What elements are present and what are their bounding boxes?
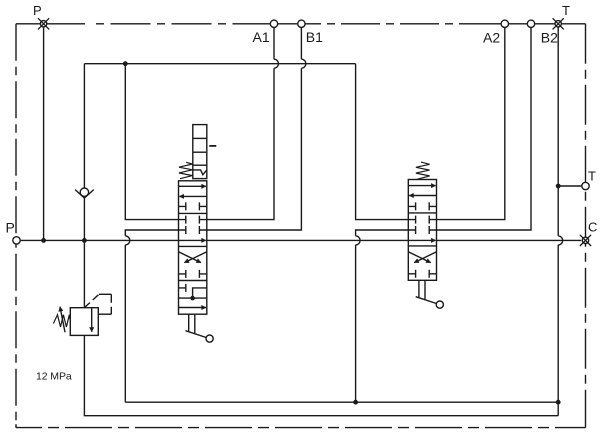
valve V2 neutral open-center arrow (408, 239, 435, 241)
wire tank rail (84, 63, 355, 65)
valve V1 detent dash mark (209, 145, 216, 147)
valve V1 position1 arrow right (179, 185, 206, 187)
wire outer tank return line (84, 335, 558, 415)
valve V1 detent column (193, 125, 207, 179)
junction dot bottom line T (556, 400, 561, 405)
valve V1 position3 crossed arrows (179, 252, 207, 263)
wire valve2 drop to bottom line (355, 245, 357, 402)
valve V1 spring (179, 162, 193, 178)
port T right (582, 182, 589, 189)
svg-text:A1: A1 (253, 29, 270, 45)
wire B1 riser (300, 27, 302, 59)
svg-text:B2: B2 (541, 30, 558, 46)
wire hop over main line (558, 236, 563, 245)
wire P vertical from top port (43, 27, 45, 240)
junction dot P line (41, 238, 46, 243)
svg-text:T: T (588, 169, 596, 184)
port A1 (270, 20, 277, 27)
wire drop to bottom tank line (124, 245, 126, 402)
valve V1 position3 blocked stubs (179, 270, 207, 278)
svg-text:B1: B1 (306, 29, 323, 45)
valve V2 lever shaft (419, 280, 425, 299)
enclosure boundary top (16, 23, 85, 25)
svg-text:P: P (33, 3, 42, 18)
wire A2 riser (437, 27, 505, 220)
wire check/relief vertical upper (83, 64, 85, 189)
svg-text:12 MPa: 12 MPa (36, 371, 72, 383)
valve V1 neutral open-center arrow (179, 239, 206, 241)
valve V2 body (408, 180, 436, 281)
wire hop over tank rail (301, 59, 305, 68)
valve V2 position1 arrow left (409, 195, 436, 197)
wire hop over tank rail (274, 59, 278, 68)
svg-text:A2: A2 (483, 30, 500, 46)
junction dot relief line (82, 238, 87, 243)
valve V2 neutral blocked stubs upper (408, 216, 436, 224)
valve V1 lever shaft (189, 314, 195, 333)
valve V1 position1 blocked stubs (179, 202, 207, 210)
valve V1 float position L path (193, 288, 207, 298)
wire valve2 upper-left drop (356, 64, 409, 220)
port A2 (501, 20, 508, 27)
valve V2 lever handle (416, 297, 437, 304)
valve V1 float arrow (179, 307, 206, 309)
valve V2 position1 blocked stubs (408, 202, 436, 210)
port P top plugged (38, 18, 49, 29)
port B1 (298, 20, 305, 27)
wire B1 to valve1 (207, 68, 302, 230)
wire drop valve1 upper-left (125, 64, 178, 220)
wire hop over main line (125, 236, 130, 245)
relief valve RV1 spring (53, 315, 70, 327)
valve V2 position3 blocked stubs (408, 270, 436, 278)
valve V2 neutral blocked stubs lower (408, 226, 436, 234)
svg-text:T: T (562, 3, 570, 18)
valve V2 lever knob (436, 301, 443, 308)
check valve CV1 (75, 188, 94, 198)
valve V1 neutral blocked stubs upper (179, 216, 207, 224)
enclosure boundary right (585, 24, 587, 428)
valve V1 body (179, 181, 207, 314)
valve V1 lever knob (206, 335, 213, 342)
valve V1 float position stub left (179, 284, 186, 292)
valve V2 position3 crossed arrows (408, 252, 436, 263)
port C right plugged (580, 235, 591, 246)
wire A1 to valve1 (207, 68, 274, 219)
enclosure boundary left (15, 24, 17, 428)
valve V1 neutral blocked stubs lower (179, 226, 207, 234)
port B2 (527, 20, 534, 27)
wire bottom tank line inner (125, 401, 558, 403)
port P left (13, 237, 20, 244)
junction dot T branch (556, 184, 561, 189)
valve V1 float position through line (179, 297, 207, 299)
wire hop over main line (356, 236, 361, 245)
wire valve2 lower-left L (356, 230, 409, 236)
relief valve RV1 internal arrow (91, 308, 93, 332)
enclosure boundary bottom (16, 427, 586, 429)
junction dot bottom line valve2 (353, 400, 358, 405)
svg-text:P: P (6, 220, 15, 236)
valve V1 position1 arrow left (179, 195, 206, 197)
wire main pressure line (21, 239, 581, 241)
wire T branch to side port (558, 185, 581, 187)
junction dot rail/valve1 (123, 61, 128, 66)
wire T vertical lower (557, 245, 559, 416)
junction inside valve V1 (190, 296, 195, 301)
wire T vertical upper (557, 27, 559, 236)
svg-text:C: C (588, 220, 597, 235)
port T top plugged (553, 18, 564, 29)
valve V2 spring (416, 162, 430, 179)
valve V1 lever handle (186, 331, 207, 338)
wire A1 riser (273, 27, 275, 59)
relief valve RV1 body (70, 308, 98, 336)
valve V2 position1 arrow right (408, 185, 435, 187)
relief valve RV1 pilot line dashed (84, 294, 99, 307)
wire check valve to main line (83, 198, 85, 308)
wire drop valve1 lower-left with hop (125, 230, 178, 236)
wire B2 riser (437, 27, 532, 230)
relief valve RV1 adjustment arrow (60, 307, 65, 333)
